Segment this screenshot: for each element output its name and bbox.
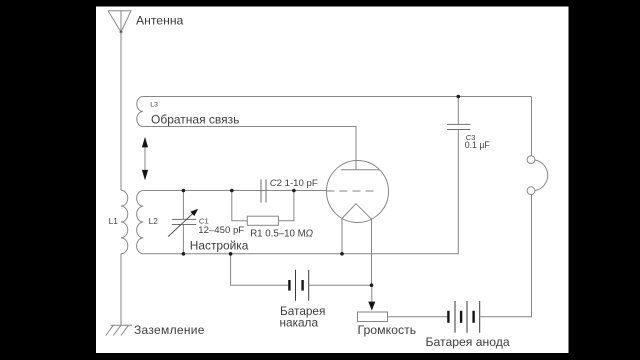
headphones (527, 156, 548, 195)
wire antenna to L1 (120, 32, 122, 190)
wire filament left lead (341, 218, 343, 253)
svg-text:L3: L3 (150, 102, 158, 109)
tube filament (342, 204, 372, 220)
capacitor C1 arrow (168, 209, 198, 237)
svg-text:Настройка: Настройка (190, 238, 249, 252)
wire anode battery to right rail (480, 195, 532, 317)
capacitor C1 leads (182, 191, 184, 220)
svg-text:L1: L1 (109, 216, 119, 226)
coupling arrow (142, 137, 148, 181)
wire grid line (143, 190, 326, 192)
svg-text:Антенна: Антенна (136, 14, 184, 28)
tube anode plate (341, 169, 380, 171)
rheostat volume body (358, 312, 388, 322)
wire bottom rail (143, 253, 458, 255)
capacitor C3 leads (457, 97, 459, 125)
capacitor C2 plates (261, 180, 266, 203)
node grid/R1 right (292, 189, 296, 193)
resistor R1 body (247, 216, 278, 225)
wire L3 bottom to anode (143, 127, 356, 170)
svg-text:12–450 pF: 12–450 pF (198, 225, 244, 236)
capacitor C2 branch wires (232, 190, 261, 192)
svg-text:C2 1-10 pF: C2 1-10 pF (270, 178, 318, 189)
svg-text:Обратная связь: Обратная связь (151, 113, 239, 127)
node grid/C1 (182, 189, 186, 193)
wire battery to filament lead (309, 284, 372, 286)
svg-text:Заземление: Заземление (134, 323, 205, 337)
wire rheostat to anode battery (388, 316, 449, 318)
wire right rail top (531, 97, 533, 156)
battery filament cells (289, 270, 308, 301)
svg-text:накала: накала (280, 315, 319, 329)
node rail/filament (340, 252, 344, 256)
inductor L1 (121, 190, 128, 254)
ground (106, 325, 132, 335)
svg-text:R1 0.5–10 МΩ: R1 0.5–10 МΩ (250, 229, 313, 240)
wire L1 to ground (120, 254, 122, 325)
node rail/C1 (182, 252, 186, 256)
tube grid (dashed) (327, 190, 378, 192)
node rail/battery (229, 252, 233, 256)
svg-text:Батарея анода: Батарея анода (426, 335, 510, 349)
node toprail/C3 (457, 95, 461, 99)
tube U1 envelope (327, 161, 389, 223)
wire L3 top rail to right (143, 96, 532, 98)
junction dots (182, 95, 461, 287)
white drawing panel (96, 7, 569, 354)
svg-text:L2: L2 (149, 216, 159, 226)
node filament/battery (370, 283, 374, 287)
svg-text:Громкость: Громкость (358, 323, 417, 337)
inductor L3 (137, 97, 143, 127)
capacitor C3 plates (447, 124, 470, 129)
wire rail to filament battery (231, 254, 289, 285)
antenna (108, 11, 131, 34)
svg-text:0.1 µF: 0.1 µF (465, 140, 491, 150)
resistor R1 loop wires (232, 191, 248, 221)
wire filament right lead (371, 219, 373, 285)
node grid/R1 left (230, 189, 234, 193)
capacitor C1 plates (172, 219, 196, 224)
potentiometer wiper arrow (368, 285, 375, 310)
battery anode cells (448, 301, 479, 333)
inductor L2 (137, 191, 144, 254)
